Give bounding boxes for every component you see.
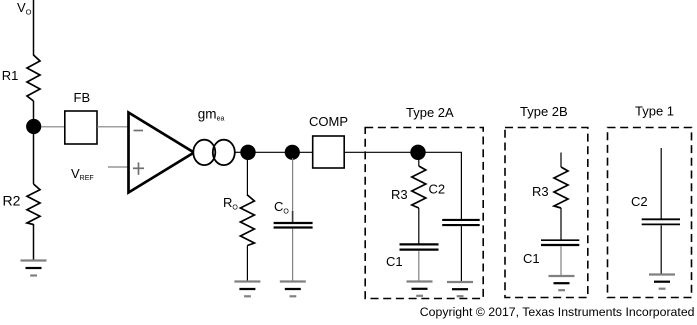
svg-text:Type 2A: Type 2A — [406, 105, 454, 120]
wire C1 to ground (Type 2B) — [560, 246, 562, 276]
capacitor C1 (Type 2A) — [386, 244, 439, 269]
ground (below R2) — [21, 261, 47, 276]
dashed box Type 2A — [365, 105, 483, 299]
wire C1 to ground — [418, 251, 420, 281]
wire V_REF to op-amp non-inverting input — [108, 166, 128, 168]
COMP pin box — [309, 114, 348, 168]
svg-text:R2: R2 — [3, 193, 21, 209]
wire R3 to C1 (Type 2B) — [560, 208, 562, 240]
wire input stub to R3 (Type 2B) — [560, 153, 562, 168]
gm output current-source circles — [193, 140, 235, 165]
resistor R1 — [2, 55, 40, 101]
capacitor C1 (Type 2B) — [523, 240, 579, 266]
resistor R2 — [3, 184, 41, 225]
wire R_O to ground — [246, 246, 248, 282]
ground (below R_O) — [234, 282, 260, 297]
node: output junction 1 — [240, 145, 255, 160]
wire node 1 down to R_O — [246, 158, 248, 196]
op-amp gm_ea error amplifier — [129, 107, 225, 193]
wire C2 to ground (Type 1) — [660, 225, 662, 274]
resistor R3 (Type 2A) — [391, 166, 426, 208]
wire node 2 down to C_O — [292, 158, 294, 211]
svg-text:Type 1: Type 1 — [635, 104, 674, 119]
wire R3 to C1 — [418, 208, 420, 244]
svg-text:FB: FB — [74, 90, 91, 105]
dashed box Type 1 — [608, 104, 692, 298]
capacitor C2 (Type 1) — [631, 194, 680, 224]
wire node 2 to COMP box — [292, 151, 313, 153]
capacitor C_O — [274, 199, 313, 228]
wire C2 to ground — [460, 226, 462, 281]
resistor R_O — [223, 195, 254, 246]
wire V_O down to R1 — [33, 0, 35, 56]
wire node to FB box — [41, 126, 65, 128]
svg-text:Type 2B: Type 2B — [520, 104, 568, 119]
svg-text:C1: C1 — [523, 251, 540, 266]
wire node 1 to node 2 — [248, 151, 292, 153]
ground (below C_O) — [280, 282, 306, 297]
wire R2 to ground — [33, 224, 35, 260]
wire R1 to node — [33, 101, 35, 121]
wire FB to op-amp inverting input — [97, 126, 128, 128]
node: feedback divider junction — [26, 119, 41, 134]
node: output junction 2 — [285, 145, 300, 160]
svg-text:C1: C1 — [386, 254, 403, 269]
ground (Type 2B) — [549, 276, 575, 290]
wire node to C2 branch (right) — [418, 152, 461, 219]
svg-text:COMP: COMP — [309, 114, 348, 129]
wire node down to R3 — [418, 158, 420, 166]
wire C_O to ground — [292, 229, 294, 282]
resistor R3 (Type 2B) — [532, 167, 568, 208]
ground (Type 1) — [649, 275, 675, 289]
FB pin box — [65, 90, 97, 144]
svg-text:R3: R3 — [391, 187, 408, 202]
wire op-amp output to node 1 — [235, 151, 242, 153]
svg-text:Copyright © 2017, Texas Instru: Copyright © 2017, Texas Instruments Inco… — [420, 305, 695, 319]
svg-text:R1: R1 — [2, 68, 19, 83]
wire node to R2 — [33, 133, 35, 184]
ground (below C2, Type 2A) — [447, 282, 473, 296]
svg-text:C2: C2 — [429, 182, 446, 197]
dashed box Type 2B — [505, 104, 588, 298]
wire COMP to compensation node — [344, 151, 418, 153]
svg-text:R3: R3 — [532, 184, 549, 199]
ground (below C1, Type 2A) — [407, 282, 433, 296]
node: compensation junction — [410, 145, 425, 160]
svg-text:C2: C2 — [631, 194, 648, 209]
wire input stub to C2 (Type 1) — [660, 148, 662, 219]
capacitor C2 (Type 2A) — [429, 182, 480, 226]
